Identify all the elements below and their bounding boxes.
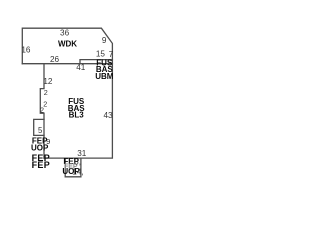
svg-text:WDK: WDK xyxy=(58,40,77,49)
svg-text:36: 36 xyxy=(60,28,70,37)
svg-text:41: 41 xyxy=(76,63,86,72)
svg-text:BL3: BL3 xyxy=(69,111,85,120)
svg-text:12: 12 xyxy=(43,77,53,86)
svg-text:15: 15 xyxy=(96,50,106,59)
svg-text:14,: 14, xyxy=(72,168,83,177)
svg-text:8,: 8, xyxy=(74,157,81,166)
svg-text:26: 26 xyxy=(50,55,60,64)
svg-text:UBM: UBM xyxy=(95,72,114,81)
svg-text:16: 16 xyxy=(21,46,31,55)
svg-text:2: 2 xyxy=(44,88,48,97)
svg-text:5: 5 xyxy=(38,126,43,135)
svg-text:43: 43 xyxy=(103,111,113,120)
svg-text:9: 9 xyxy=(102,36,107,45)
svg-text:9: 9 xyxy=(46,137,50,146)
svg-text:2: 2 xyxy=(40,105,44,114)
svg-text:FEP: FEP xyxy=(32,160,50,170)
